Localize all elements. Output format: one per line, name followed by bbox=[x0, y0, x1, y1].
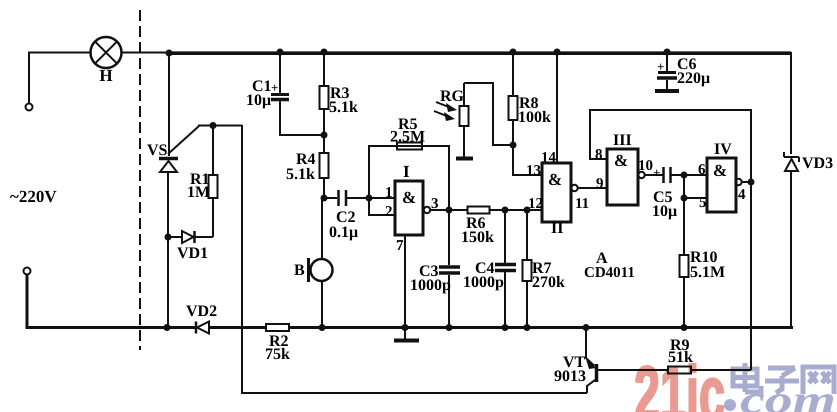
svg-text:II: II bbox=[551, 220, 563, 237]
svg-text:75k: 75k bbox=[265, 346, 290, 363]
svg-text:1M: 1M bbox=[187, 184, 210, 201]
node R4 C2 B junction bbox=[321, 195, 328, 202]
wire C5 to pins 6 5 and R10 bbox=[684, 175, 707, 255]
feedback wire pin4 to pin8 and R9 bbox=[590, 110, 751, 370]
svg-text:5: 5 bbox=[699, 195, 707, 211]
svg-text:9013: 9013 bbox=[554, 368, 586, 385]
resistor R2 bbox=[265, 324, 290, 363]
svg-text:VD1: VD1 bbox=[177, 245, 208, 262]
resistor R6 bbox=[461, 207, 542, 247]
capacitor C5 bbox=[652, 165, 684, 220]
resistor R1 bbox=[187, 125, 218, 237]
wire VS anode drop bbox=[168, 52, 170, 156]
svg-text:220μ: 220μ bbox=[677, 70, 710, 87]
svg-text:5.1M: 5.1M bbox=[690, 264, 725, 281]
thyristor VS bbox=[147, 142, 178, 172]
svg-text:11: 11 bbox=[575, 196, 589, 212]
svg-text:&: & bbox=[402, 188, 416, 207]
resistor R9 bbox=[668, 337, 693, 374]
nand gate II bbox=[526, 49, 607, 238]
svg-text:III: III bbox=[613, 132, 632, 149]
node pin3 output junction bbox=[446, 207, 453, 214]
svg-text:B: B bbox=[294, 262, 305, 279]
node C2 pin1 R5 junction bbox=[366, 195, 373, 202]
svg-text:12: 12 bbox=[528, 196, 543, 212]
svg-text:2.5M: 2.5M bbox=[390, 129, 425, 146]
nand gate III bbox=[595, 132, 661, 205]
transistor VT 9013 bbox=[554, 324, 668, 393]
svg-text:9: 9 bbox=[596, 176, 604, 192]
svg-text:2: 2 bbox=[385, 204, 393, 220]
svg-text:6: 6 bbox=[698, 162, 706, 178]
wire VS gate bbox=[168, 126, 242, 155]
svg-text:&: & bbox=[614, 151, 628, 170]
wire top rail bbox=[169, 51, 791, 55]
svg-text:8: 8 bbox=[595, 147, 603, 163]
svg-text:10μ: 10μ bbox=[652, 203, 677, 220]
svg-text:0.1μ: 0.1μ bbox=[329, 224, 358, 241]
svg-text:10μ: 10μ bbox=[246, 92, 271, 109]
svg-text:VD3: VD3 bbox=[802, 155, 833, 172]
terminal lower mains bbox=[24, 268, 31, 275]
svg-text:10: 10 bbox=[638, 158, 653, 174]
svg-text:VS: VS bbox=[147, 142, 168, 159]
svg-text:4: 4 bbox=[738, 187, 746, 203]
wire lower mains lead bbox=[27, 275, 196, 328]
svg-text:5.1k: 5.1k bbox=[286, 166, 315, 183]
node pin7 rail bbox=[402, 324, 409, 331]
resistor R4 bbox=[286, 135, 329, 198]
wire pin7 to ground bbox=[404, 235, 406, 340]
watermark 21ic.com logo bbox=[634, 351, 836, 412]
diode VD2 bbox=[186, 303, 217, 334]
svg-text:VD2: VD2 bbox=[186, 303, 217, 320]
svg-text:&: & bbox=[713, 161, 727, 180]
svg-text:13: 13 bbox=[526, 163, 541, 179]
capacitor C1 bbox=[246, 49, 324, 136]
node pin5 R10 junction bbox=[681, 195, 688, 202]
wire VS cathode down bbox=[167, 172, 169, 328]
wire right supply drop bbox=[790, 52, 792, 154]
capacitor C4 bbox=[463, 207, 516, 332]
wire lamp to node bbox=[122, 52, 170, 54]
svg-text:150k: 150k bbox=[461, 229, 494, 246]
wire bottom rail bbox=[289, 326, 793, 329]
ground below pin7 bbox=[394, 339, 419, 343]
svg-text:1000p: 1000p bbox=[463, 274, 504, 291]
nand gate IV bbox=[698, 141, 755, 212]
svg-text:+: + bbox=[653, 165, 660, 180]
svg-text:I: I bbox=[403, 162, 410, 181]
capacitor C6 bbox=[655, 49, 710, 92]
node VD1 anode bbox=[165, 234, 172, 241]
nand gate I bbox=[369, 162, 468, 254]
diode VD1 bbox=[168, 231, 213, 262]
svg-text:CD4011: CD4011 bbox=[584, 265, 635, 281]
lamp H bbox=[91, 37, 122, 85]
dashed mains boundary bbox=[139, 10, 141, 350]
svg-text:5.1k: 5.1k bbox=[329, 99, 358, 116]
resistor R7 bbox=[523, 207, 566, 332]
node gate R1 junction bbox=[210, 122, 217, 129]
svg-text:+: + bbox=[271, 80, 278, 95]
svg-text:3: 3 bbox=[431, 196, 439, 212]
svg-text:100k: 100k bbox=[518, 109, 551, 126]
svg-text:14: 14 bbox=[541, 150, 557, 166]
wire RG R8 to pin13 bbox=[464, 83, 542, 175]
wire upper mains lead bbox=[29, 53, 91, 104]
svg-text:H: H bbox=[99, 66, 112, 85]
terminal upper mains bbox=[26, 104, 33, 111]
svg-text:51k: 51k bbox=[668, 349, 693, 366]
node B bottom bbox=[319, 324, 326, 331]
svg-text:~220V: ~220V bbox=[10, 187, 57, 206]
svg-text:1: 1 bbox=[385, 185, 393, 201]
node top rail left bbox=[166, 50, 173, 57]
svg-text:IV: IV bbox=[714, 141, 732, 158]
resistor R3 bbox=[320, 49, 359, 136]
wire trigger line from gate to VT emitter bbox=[242, 125, 587, 393]
resistor R8 bbox=[509, 49, 552, 149]
svg-text:&: & bbox=[548, 170, 562, 189]
svg-text:270k: 270k bbox=[532, 274, 565, 291]
svg-text:1000p: 1000p bbox=[410, 277, 451, 294]
photoresistor RG bbox=[434, 83, 473, 159]
resistor R10 bbox=[680, 249, 726, 331]
resistor R5 feedback loop bbox=[369, 116, 449, 210]
svg-text:7: 7 bbox=[396, 238, 404, 254]
node VS bottom rail bbox=[164, 324, 171, 331]
capacitor C3 bbox=[410, 210, 460, 331]
svg-text:RG: RG bbox=[440, 88, 465, 105]
capacitor C2 bbox=[324, 190, 369, 241]
node R3 R4 C1 junction bbox=[321, 132, 328, 139]
node C5 pin6 junction bbox=[681, 172, 688, 179]
wire VD2 to R2 bbox=[209, 326, 266, 329]
svg-text:+: + bbox=[657, 59, 664, 74]
microphone B bbox=[294, 198, 333, 328]
zener diode VD3 bbox=[784, 152, 833, 328]
